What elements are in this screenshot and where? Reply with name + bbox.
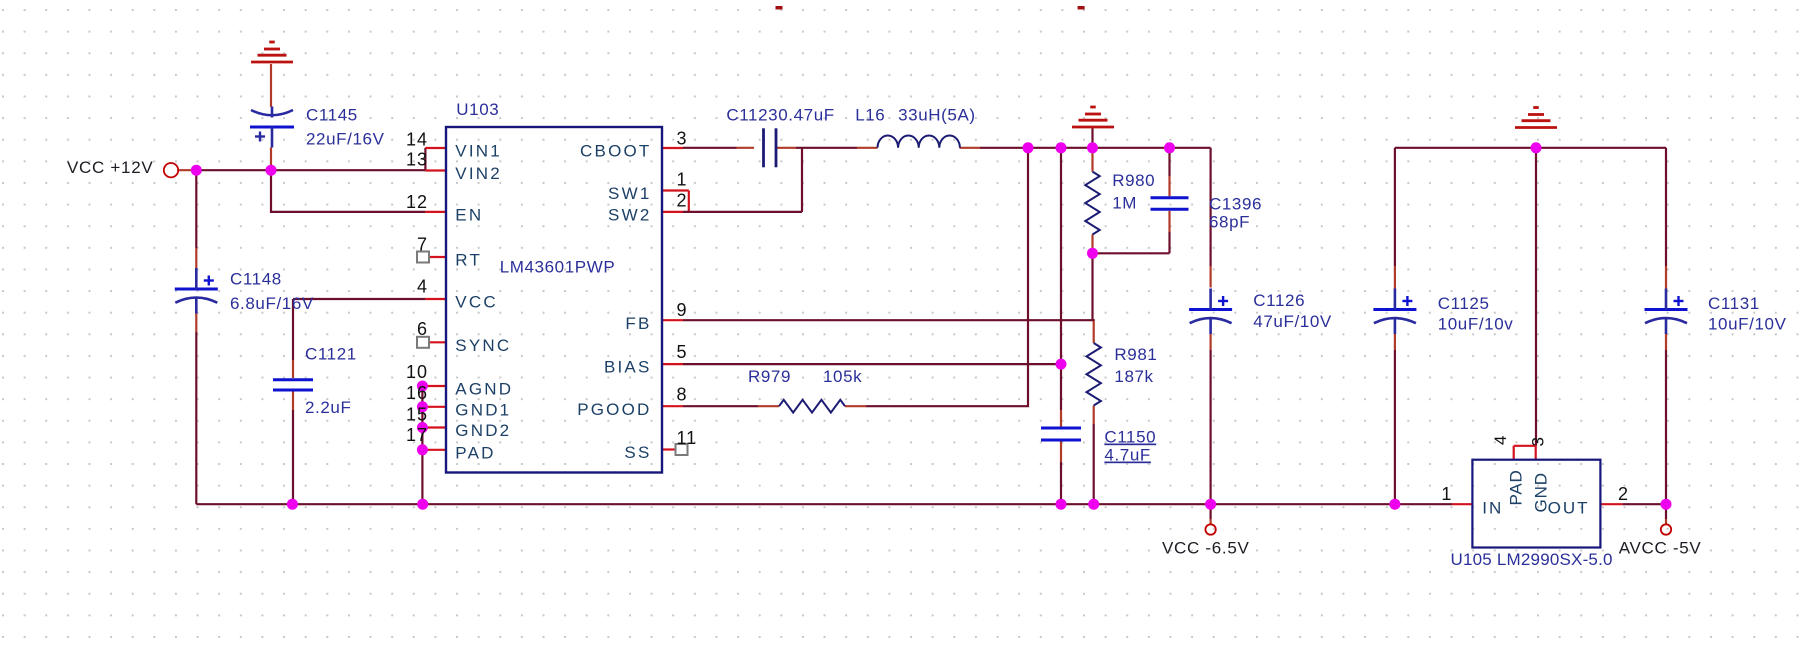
- svg-text:5: 5: [677, 342, 688, 362]
- svg-text:U103: U103: [456, 100, 499, 119]
- svg-text:4: 4: [1491, 436, 1510, 445]
- svg-text:C1125: C1125: [1438, 294, 1490, 313]
- svg-text:10: 10: [406, 362, 428, 382]
- svg-text:PAD: PAD: [455, 443, 495, 462]
- svg-text:2: 2: [677, 191, 688, 211]
- svg-text:8: 8: [677, 385, 688, 405]
- svg-text:VIN1: VIN1: [455, 142, 502, 161]
- svg-text:3: 3: [677, 129, 688, 149]
- svg-text:22uF/16V: 22uF/16V: [306, 130, 385, 149]
- svg-text:C1148: C1148: [230, 270, 282, 289]
- svg-text:10uF/10v: 10uF/10v: [1438, 315, 1514, 334]
- svg-text:R979: R979: [748, 367, 791, 386]
- svg-text:14: 14: [406, 130, 428, 150]
- svg-text:SW2: SW2: [608, 206, 651, 225]
- svg-text:4: 4: [417, 277, 428, 297]
- svg-text:R980: R980: [1112, 171, 1155, 190]
- svg-text:1: 1: [677, 169, 688, 189]
- svg-text:1: 1: [1441, 484, 1452, 504]
- svg-text:68pF: 68pF: [1209, 213, 1250, 232]
- svg-text:C1131: C1131: [1708, 294, 1760, 313]
- svg-text:PGOOD: PGOOD: [577, 400, 651, 419]
- svg-text:2.2uF: 2.2uF: [305, 398, 351, 417]
- svg-text:6.8uF/16V: 6.8uF/16V: [230, 294, 314, 313]
- svg-text:6: 6: [417, 319, 428, 339]
- svg-text:VCC: VCC: [455, 293, 498, 312]
- svg-text:FB: FB: [625, 314, 651, 333]
- svg-text:L16: L16: [855, 106, 885, 125]
- svg-text:12: 12: [406, 192, 428, 212]
- svg-text:4.7uF: 4.7uF: [1104, 446, 1150, 465]
- svg-text:PAD: PAD: [1506, 469, 1525, 505]
- svg-text:VCC -6.5V: VCC -6.5V: [1162, 539, 1250, 558]
- svg-text:R981: R981: [1114, 345, 1157, 364]
- svg-text:47uF/10V: 47uF/10V: [1253, 312, 1332, 331]
- svg-text:SYNC: SYNC: [455, 336, 511, 355]
- svg-text:C1150: C1150: [1104, 428, 1156, 447]
- svg-text:EN: EN: [455, 206, 483, 225]
- svg-text:RT: RT: [455, 251, 482, 270]
- svg-text:C1145: C1145: [306, 106, 358, 125]
- svg-text:C1121: C1121: [305, 345, 357, 364]
- svg-text:SW1: SW1: [608, 184, 651, 203]
- svg-text:OUT: OUT: [1548, 498, 1590, 517]
- svg-text:17: 17: [406, 425, 428, 445]
- svg-text:VCC +12V: VCC +12V: [67, 158, 153, 177]
- svg-text:33uH(5A): 33uH(5A): [898, 106, 976, 125]
- svg-text:105k: 105k: [823, 367, 862, 386]
- svg-text:1M: 1M: [1112, 194, 1137, 213]
- svg-text:GND1: GND1: [455, 400, 511, 419]
- svg-text:BIAS: BIAS: [604, 358, 652, 377]
- svg-text:C11230.47uF: C11230.47uF: [726, 106, 834, 125]
- svg-text:GND2: GND2: [455, 421, 511, 440]
- svg-text:2: 2: [1618, 484, 1629, 504]
- svg-text:3: 3: [1529, 437, 1548, 446]
- svg-text:AGND: AGND: [455, 380, 513, 399]
- svg-text:15: 15: [406, 405, 428, 425]
- svg-text:16: 16: [406, 383, 428, 403]
- svg-text:C1396: C1396: [1209, 195, 1262, 214]
- svg-text:9: 9: [677, 300, 688, 320]
- svg-text:C1126: C1126: [1253, 291, 1305, 310]
- svg-text:SS: SS: [624, 443, 651, 462]
- svg-text:GND: GND: [1532, 472, 1551, 512]
- svg-text:13: 13: [406, 150, 428, 170]
- svg-text:AVCC -5V: AVCC -5V: [1619, 539, 1702, 558]
- svg-text:187k: 187k: [1114, 367, 1153, 386]
- svg-text:CBOOT: CBOOT: [580, 142, 651, 161]
- svg-text:VIN2: VIN2: [455, 164, 502, 183]
- svg-text:IN: IN: [1482, 498, 1503, 517]
- svg-text:U105 LM2990SX-5.0: U105 LM2990SX-5.0: [1451, 550, 1613, 569]
- svg-text:10uF/10V: 10uF/10V: [1708, 315, 1787, 334]
- svg-text:LM43601PWP: LM43601PWP: [500, 258, 616, 277]
- svg-text:7: 7: [417, 235, 428, 255]
- svg-text:11: 11: [677, 428, 698, 448]
